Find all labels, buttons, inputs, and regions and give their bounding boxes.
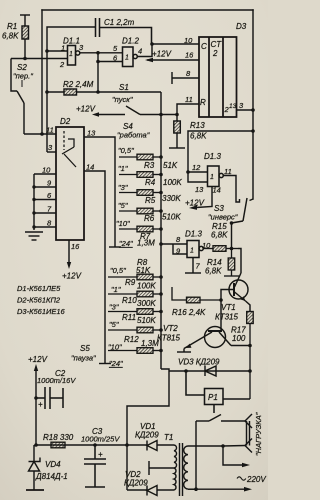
svg-text:"5": "5" — [118, 201, 128, 210]
svg-text:R18 330: R18 330 — [43, 433, 74, 442]
resistor R2 — [47, 89, 161, 95]
svg-text:6,8K: 6,8K — [205, 267, 222, 276]
node S1 to bus — [159, 113, 163, 117]
power +12V pin16 — [145, 58, 199, 63]
svg-text:510K: 510K — [137, 316, 156, 325]
power +12V rail bottom — [34, 364, 38, 445]
svg-text:R6: R6 — [144, 214, 155, 223]
svg-text:+12V: +12V — [62, 272, 82, 281]
svg-text:+12V: +12V — [185, 199, 205, 208]
resistor R11 — [108, 327, 161, 333]
op-amp gate D1.1 — [68, 46, 80, 66]
svg-text:13: 13 — [195, 185, 204, 194]
svg-text:14: 14 — [213, 186, 221, 195]
wire R2 node down main bus — [160, 92, 162, 369]
relay contact P1 — [196, 415, 245, 490]
wire top rail — [42, 9, 253, 11]
svg-text:+12V: +12V — [76, 105, 96, 114]
svg-text:D3-К561ИЕ16: D3-К561ИЕ16 — [17, 307, 66, 316]
svg-text:4: 4 — [138, 47, 142, 56]
svg-text:"пуск": "пуск" — [112, 95, 133, 104]
svg-text:D1.3: D1.3 — [204, 152, 221, 161]
svg-text:"пауза": "пауза" — [71, 354, 96, 363]
resistor R14 — [224, 249, 239, 277]
svg-text:510K: 510K — [162, 213, 181, 222]
svg-text:"10": "10" — [116, 219, 130, 228]
svg-text:"НАГРУЗКА": "НАГРУЗКА" — [254, 412, 263, 456]
svg-text:"1": "1" — [111, 285, 121, 294]
node pin4/pin10 — [150, 42, 154, 46]
svg-text:КД209: КД209 — [135, 431, 159, 440]
terminal VT2 emitter common — [177, 349, 191, 353]
svg-text:220V: 220V — [246, 475, 266, 484]
wire D2 pin 8 stub — [34, 226, 56, 228]
svg-text:"5": "5" — [109, 320, 119, 329]
terminal VD4 common — [26, 489, 44, 491]
resistor R1 — [20, 15, 30, 58]
svg-text:1: 1 — [69, 51, 73, 58]
svg-text:300K: 300K — [137, 299, 156, 308]
wire D1.1 out to D1.2 in — [80, 52, 123, 54]
svg-text:1000m/16V: 1000m/16V — [37, 376, 76, 385]
svg-text:T1: T1 — [164, 433, 173, 442]
svg-text:D1.1: D1.1 — [63, 37, 80, 46]
svg-text:R10: R10 — [122, 296, 137, 305]
svg-text:S5: S5 — [80, 344, 90, 353]
svg-text:D1-К561ЛЕ5: D1-К561ЛЕ5 — [17, 284, 61, 293]
node R18 left — [34, 443, 38, 447]
resistor R18 — [51, 442, 65, 448]
svg-text:R4: R4 — [145, 178, 156, 187]
wire right rail down to S3 — [252, 10, 254, 199]
svg-text:1,3M: 1,3M — [137, 239, 155, 248]
op-amp gate D1.3 — [208, 166, 224, 187]
svg-text:"0,5": "0,5" — [110, 266, 126, 275]
svg-text:R5: R5 — [145, 196, 156, 205]
svg-text:10: 10 — [184, 36, 193, 45]
svg-text:VT2: VT2 — [163, 324, 178, 333]
svg-text:1: 1 — [61, 44, 65, 53]
resistor R8 — [108, 274, 161, 280]
resistor R13 — [169, 115, 185, 149]
wire D2 ground bus — [33, 174, 35, 230]
transformer T1 secondary — [149, 445, 177, 490]
svg-text:51K: 51K — [163, 161, 178, 170]
svg-text:1000m/25V: 1000m/25V — [81, 435, 120, 444]
node gate feedback to R2 wire — [96, 90, 100, 94]
wire mains lead 2 — [188, 487, 252, 492]
svg-text:D1.2: D1.2 — [122, 37, 139, 46]
terminal pin 7 common — [185, 258, 201, 274]
switch S2 — [11, 59, 24, 135]
diode VD1 — [127, 441, 174, 451]
svg-text:6,8K: 6,8K — [2, 32, 19, 41]
node R2 tap — [45, 90, 49, 94]
resistor R6 — [119, 208, 161, 214]
svg-text:VD3 КД209: VD3 КД209 — [178, 358, 220, 367]
node VD3 cathode — [248, 369, 252, 373]
svg-text:11: 11 — [185, 95, 193, 104]
svg-text:+12V: +12V — [28, 355, 48, 364]
svg-text:КТ815: КТ815 — [157, 334, 181, 343]
node D3 out to right rail — [251, 108, 255, 112]
node pins 12-13 — [186, 170, 190, 174]
svg-text:10: 10 — [42, 166, 51, 175]
node VT2 collector / R17 — [248, 344, 252, 348]
wire D3 pin 10 — [152, 43, 199, 45]
wire D1.3 pin 12 — [188, 171, 208, 173]
node C2 tap — [34, 396, 38, 400]
resistor R3 — [119, 154, 161, 160]
node left rail joins pin11 wire — [40, 132, 44, 136]
svg-text:R2 2,4M: R2 2,4M — [63, 80, 94, 89]
ground D2 inputs — [25, 232, 43, 240]
resistor R16 — [172, 287, 221, 303]
op-amp gate D1.3b — [187, 241, 203, 258]
svg-text:1: 1 — [125, 55, 129, 62]
wire pins 8-9 tie — [173, 244, 187, 254]
node R15/R14/S3 — [230, 247, 234, 251]
svg-text:CT: CT — [211, 40, 223, 49]
diode VD2 — [127, 445, 174, 496]
svg-text:+: + — [38, 400, 43, 409]
wire D1 pin 14 supply — [189, 187, 212, 210]
svg-text:"работа": "работа" — [117, 131, 150, 140]
wire left rail from top to D2 pin 11 — [41, 10, 43, 134]
wire bus to C3 node zigzag — [127, 369, 169, 445]
resistor R17 — [247, 311, 254, 399]
capacitor C3 — [84, 445, 106, 487]
diode VD4 zener — [29, 445, 41, 490]
resistor R4 — [119, 172, 161, 178]
node R16/base — [219, 298, 223, 302]
transformer T1 core — [180, 443, 183, 496]
multiplexer D2 — [56, 127, 84, 240]
svg-text:"3": "3" — [109, 303, 119, 312]
wire D2 pin 16 with +12V arrow — [67, 240, 71, 269]
wire mains lead 1 — [223, 446, 250, 467]
svg-text:"24": "24" — [119, 239, 133, 248]
wire link to pin 6 — [97, 53, 99, 92]
resistor R7 — [119, 226, 161, 232]
svg-text:VT1: VT1 — [221, 303, 236, 312]
transformer T1 primary — [184, 446, 223, 489]
label 220V — [237, 477, 246, 480]
svg-text:D2: D2 — [60, 117, 71, 126]
wire D1.3 out to S3 contact — [223, 176, 239, 203]
switch S4 wiper tick — [109, 246, 121, 248]
svg-text:14: 14 — [86, 163, 94, 172]
switch S1 — [92, 106, 161, 117]
wire branch to D3 R pin 11 — [161, 104, 199, 115]
svg-text:16: 16 — [71, 242, 80, 251]
wire D2 pin11 row — [24, 133, 56, 135]
resistor R15 — [203, 246, 238, 252]
node zigzag joins rail — [125, 443, 129, 447]
resistor R9 — [108, 291, 161, 297]
svg-text:C: C — [201, 42, 207, 51]
wire bottom supply rail — [36, 444, 127, 446]
op-amp gate D1.2 — [123, 47, 138, 67]
svg-text:D2-К561КП2: D2-К561КП2 — [17, 296, 61, 305]
svg-text:R9: R9 — [125, 278, 136, 287]
node pin1 tap — [45, 49, 49, 53]
wire D1.1 pin1 — [47, 50, 68, 52]
wire D3 out pin3 — [237, 109, 254, 111]
svg-text:11: 11 — [224, 167, 232, 176]
diode VD3 — [169, 366, 250, 376]
svg-text:R13: R13 — [190, 121, 205, 130]
svg-text:100K: 100K — [137, 282, 156, 291]
transistor VT1 — [229, 273, 250, 311]
svg-text:+: + — [98, 450, 103, 459]
wire C1 left branch down (node C1/pin1/R2) — [47, 27, 95, 152]
svg-text:51K: 51K — [136, 266, 151, 275]
svg-text:D3: D3 — [236, 22, 247, 31]
svg-text:13: 13 — [229, 103, 237, 110]
capacitor C2 — [36, 387, 63, 409]
svg-text:2: 2 — [212, 49, 218, 58]
svg-text:R16 2,4K: R16 2,4K — [172, 308, 206, 317]
wire D2 pin 3 stub — [47, 151, 56, 153]
svg-text:"пер.": "пер." — [13, 72, 33, 81]
wire D2 pin 7 stub — [34, 212, 56, 214]
svg-text:1: 1 — [210, 174, 214, 181]
svg-text:330K: 330K — [162, 194, 181, 203]
node out3/pin5 — [96, 51, 100, 55]
svg-text:1: 1 — [190, 248, 194, 255]
resistor R5 — [119, 190, 161, 196]
svg-text:6,8K: 6,8K — [211, 231, 228, 240]
node R1 to pin2 wire — [23, 57, 27, 61]
wire to VT2 base — [220, 300, 222, 331]
node VD3 anode / P1 — [184, 369, 188, 373]
svg-text:R11: R11 — [122, 313, 136, 322]
svg-text:11: 11 — [46, 126, 54, 135]
svg-text:C1 2,2m: C1 2,2m — [104, 18, 135, 27]
counter D3 — [199, 37, 237, 117]
svg-text:S1: S1 — [119, 83, 129, 92]
svg-text:100: 100 — [232, 334, 246, 343]
node R13 top — [175, 113, 179, 117]
wire S3 pole down — [231, 223, 233, 249]
svg-text:13: 13 — [87, 129, 96, 138]
svg-text:R3: R3 — [144, 161, 155, 170]
relay P1 — [186, 371, 250, 413]
svg-text:12: 12 — [192, 163, 201, 172]
resistor R12 — [108, 348, 161, 354]
node mains tap — [221, 444, 225, 448]
svg-text:"24": "24" — [109, 359, 123, 368]
node pin 6 — [96, 60, 100, 64]
wire D2 pin 6 stub — [34, 199, 56, 201]
node C3 — [93, 443, 97, 447]
wire gate D1.3b pin 8 from bus — [161, 243, 187, 245]
svg-text:КД209: КД209 — [124, 479, 148, 488]
svg-text:"0,5": "0,5" — [118, 146, 134, 155]
svg-text:P1: P1 — [208, 393, 218, 402]
wire D1.2 out pin4 up to D3 C — [137, 44, 152, 57]
svg-text:100K: 100K — [163, 178, 182, 187]
svg-text:"1": "1" — [118, 164, 128, 173]
svg-text:6,8K: 6,8K — [190, 132, 207, 141]
node S3 pole — [230, 221, 234, 225]
switch S3 — [232, 198, 254, 223]
wire D2 pin 10 stub — [34, 173, 56, 175]
svg-text:VD4: VD4 — [45, 460, 61, 469]
resistor R10 — [108, 309, 161, 315]
svg-text:"3": "3" — [118, 183, 128, 192]
svg-text:R12: R12 — [124, 335, 139, 344]
wire D2 pin 13 to S4 wiper — [84, 137, 115, 247]
wire S2/pin2 to D1.1 — [11, 58, 68, 60]
terminal pin 8 common — [172, 72, 199, 84]
svg-text:D1.3: D1.3 — [185, 230, 202, 239]
wire VT1 base from R16 node — [221, 290, 234, 301]
wire D2 pin 9 stub — [34, 186, 56, 188]
switch S5 wiper tick — [99, 363, 111, 365]
transistor VT2 — [184, 327, 250, 349]
wire to VT1 collector — [238, 249, 241, 274]
svg-text:+12V: +12V — [152, 50, 172, 59]
wire D2 pin 14 to S5 wiper — [84, 171, 105, 364]
svg-text:Д814Д-1: Д814Д-1 — [35, 472, 68, 481]
node contact to mains — [194, 487, 198, 491]
svg-text:R1: R1 — [7, 22, 17, 31]
D2 internal switch — [62, 131, 76, 167]
capacitor C1 — [96, 18, 152, 44]
wire D1.2 pin 6 — [98, 61, 123, 63]
wire D1.3 input from D3 out — [188, 131, 253, 182]
svg-text:"инверс": "инверс" — [208, 213, 238, 222]
svg-text:КТ315: КТ315 — [215, 313, 239, 322]
svg-text:2: 2 — [59, 60, 65, 69]
svg-text:16: 16 — [185, 51, 194, 60]
svg-text:R: R — [200, 98, 206, 107]
connector load plug — [223, 414, 252, 453]
